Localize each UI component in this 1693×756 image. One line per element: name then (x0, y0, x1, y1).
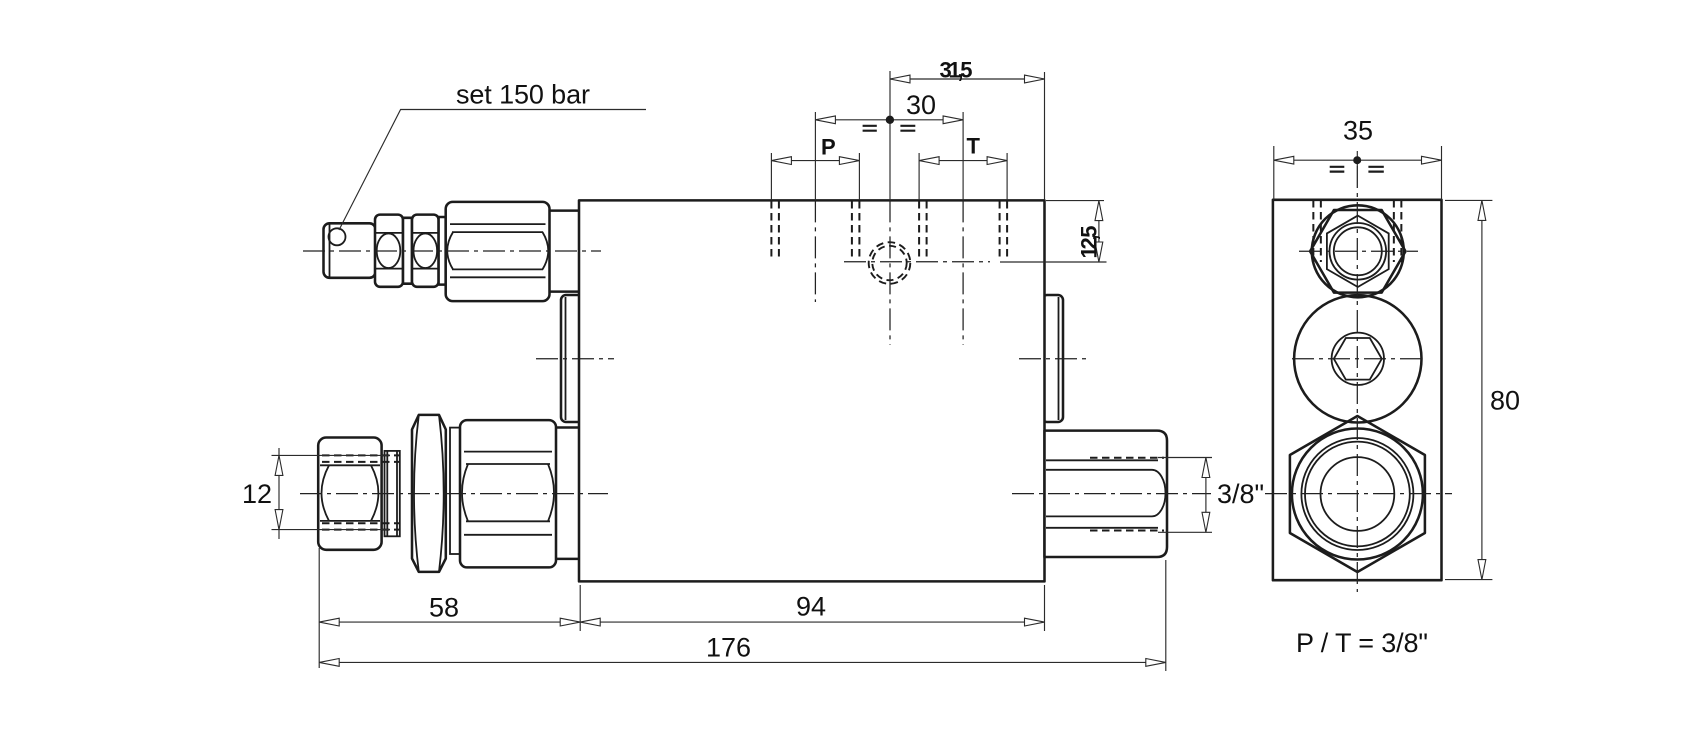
right 3/8 plug outline (1045, 431, 1168, 557)
svg-text:12: 12 (242, 479, 272, 509)
svg-text:30: 30 (906, 90, 936, 120)
P port chamfer circle (1312, 205, 1404, 297)
svg-text:12,5: 12,5 (1077, 226, 1102, 259)
stem cross hole (329, 228, 346, 245)
svg-text:P: P (821, 135, 836, 160)
dimension T line (919, 160, 1007, 162)
left boss centerline (536, 358, 614, 360)
P port horizontal centerline (1299, 250, 1418, 252)
dimension 3/8 (1158, 457, 1212, 459)
dimension 176 (1165, 560, 1167, 671)
adjuster neck into body (550, 211, 581, 292)
dimension 12 (272, 454, 391, 456)
bottom fitting hex body (460, 420, 556, 567)
P port inner hex (1327, 216, 1389, 287)
T port chamfer circle (1292, 429, 1423, 560)
svg-text:3/8": 3/8" (1217, 479, 1264, 509)
plug thread hidden lines (1090, 457, 1164, 459)
equality marks right view (1330, 167, 1384, 172)
dimension 35 (1273, 146, 1275, 200)
dimension 94 (1044, 585, 1046, 631)
hex collar across corners (412, 415, 446, 572)
T port horizontal centerline (1265, 493, 1452, 495)
bottom-left fitting centerline (300, 493, 608, 495)
gland washer (385, 451, 400, 536)
svg-text:94: 94 (796, 592, 826, 622)
P port hidden thread lines (770, 201, 772, 260)
right view vertical centerline (1356, 151, 1358, 166)
middle socket inner circle (1332, 333, 1384, 385)
middle socket horizontal centerline (1292, 358, 1424, 360)
leader line for set 150 bar (339, 110, 646, 231)
P port centerline (814, 112, 816, 200)
svg-text:set 150 bar: set 150 bar (456, 80, 590, 110)
right end view rectangle (1273, 200, 1442, 580)
junction dot (886, 116, 894, 124)
locknut 1 hex (375, 215, 403, 287)
right boss tangent line (1058, 297, 1060, 420)
middle hex socket (1334, 338, 1382, 380)
svg-text:T: T (967, 134, 981, 159)
main vertical axis line (889, 71, 891, 200)
hidden cross hole circle (869, 242, 911, 284)
right plug centerline (1012, 493, 1211, 495)
T port centerline (962, 112, 964, 200)
left boss tangent line (565, 297, 567, 420)
svg-text:35: 35 (1343, 116, 1373, 146)
P port hex (top, right view) (1310, 210, 1405, 293)
bottom-left port nut hex (318, 438, 381, 550)
valve body rectangle (579, 200, 1045, 581)
spacer between locknuts (403, 218, 412, 284)
stem tangent line (329, 225, 331, 277)
svg-text:176: 176 (706, 633, 751, 663)
T port hidden thread lines (918, 201, 920, 260)
dimension 80 (1445, 199, 1492, 201)
svg-text:P / T = 3/8": P / T = 3/8" (1296, 628, 1428, 658)
svg-text:80: 80 (1490, 386, 1520, 416)
plug internal flat lines (1046, 459, 1158, 461)
locknut 2 hex (412, 215, 439, 287)
nut thread hidden lines (322, 454, 400, 456)
middle socket circle (1294, 295, 1421, 422)
P port thread circles (1330, 223, 1387, 280)
left side boss on valve body (561, 295, 583, 422)
relief valve adjuster stem (324, 223, 376, 277)
equality marks main view (863, 126, 916, 131)
svg-text:31,5: 31,5 (940, 58, 973, 83)
right boss centerline (1019, 358, 1087, 360)
P port hidden lines (from top face) (1312, 200, 1314, 262)
dimension P line (771, 160, 859, 162)
dimension 31,5 line (890, 78, 1045, 80)
svg-text:58: 58 (429, 593, 459, 623)
T port thread circles (1301, 438, 1413, 550)
dimension 12,5 (1046, 200, 1104, 202)
washer before cap hex (439, 217, 446, 285)
dimension 30 line (815, 119, 963, 121)
top fitting centerline (303, 250, 601, 252)
ring washer (450, 428, 460, 554)
bottom fitting neck into body (556, 428, 580, 559)
T port hex (bottom, right view) (1290, 416, 1425, 572)
cross hole centerline (844, 261, 990, 263)
right side boss on valve body (1042, 295, 1063, 422)
adjuster cap hex body (446, 202, 550, 301)
dimension 58 (318, 548, 320, 668)
